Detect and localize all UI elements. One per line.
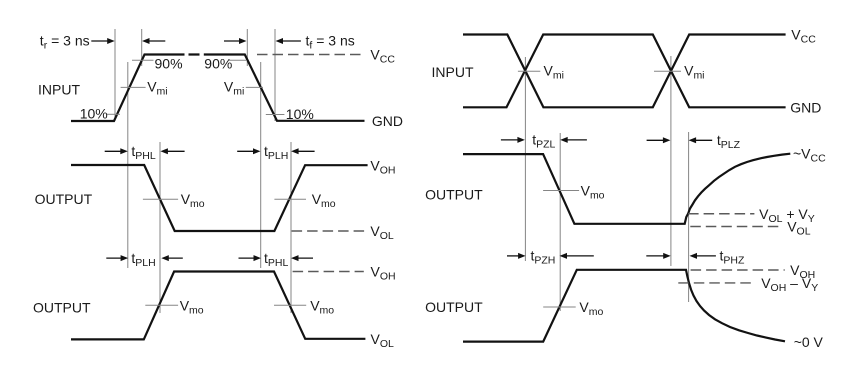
arrow tPHL right <box>105 150 123 152</box>
svg-text:90%: 90% <box>204 56 232 72</box>
bottom output waveform <box>71 272 365 340</box>
arrow tPLZ left <box>694 139 712 141</box>
tick Vmo mid first <box>143 198 178 200</box>
vertical ref line 90% fall <box>246 29 248 66</box>
vertical ref line 10% rise <box>114 29 116 121</box>
vertical ref line output Vmo second <box>290 142 292 313</box>
svg-text:10%: 10% <box>80 106 108 122</box>
svg-text:OUTPUT: OUTPUT <box>35 191 93 207</box>
Vcc dashed line <box>257 54 364 56</box>
right bottom output waveform with decay-to-0 curve <box>463 270 785 342</box>
arrow tPZL left <box>566 139 587 141</box>
arrow tPHZ right <box>646 255 665 257</box>
tick 90% fall <box>229 59 246 61</box>
svg-text:GND: GND <box>372 113 403 129</box>
svg-text:~0 V: ~0 V <box>794 334 824 350</box>
arrow tPZH left <box>565 255 594 257</box>
svg-text:OUTPUT: OUTPUT <box>33 300 91 316</box>
vertical ref line X1 Vmi <box>524 57 526 261</box>
middle output waveform <box>71 165 368 231</box>
tick Vmi X2 <box>654 70 681 72</box>
tick 10% fall <box>266 114 285 116</box>
tick Vmo right mid <box>543 190 579 192</box>
vertical ref line output Vmo first <box>159 142 161 313</box>
arrow tPLH left bottom <box>167 257 183 259</box>
input waveform right line2 <box>463 35 786 108</box>
input waveform left <box>71 55 365 122</box>
tick 90% rise <box>132 59 154 61</box>
input waveform right line1 <box>463 35 786 108</box>
arrow tPHL left <box>166 150 185 152</box>
tick Vmo mid second <box>274 198 306 200</box>
arrow tPZL right <box>501 139 520 141</box>
svg-text:10%: 10% <box>286 106 314 122</box>
Voh dashed right <box>691 269 785 271</box>
arrow tf left <box>282 40 301 42</box>
tick 10% rise <box>107 113 121 115</box>
Voh dashed bottom <box>293 271 364 273</box>
Vol dashed right <box>690 226 782 228</box>
vertical ref line VolVy crossing <box>688 132 690 302</box>
svg-text:90%: 90% <box>155 56 183 72</box>
arrow tPLH left <box>297 150 315 152</box>
tick Vmi X1 <box>518 70 540 72</box>
arrow tPHL right bottom <box>239 257 256 259</box>
vertical ref line input fall Vmi <box>260 62 262 268</box>
vertical ref line output Vmo right <box>559 133 561 311</box>
Vol dashed mid <box>292 230 368 232</box>
arrow tPHL left bottom <box>297 257 313 259</box>
tick Vmi rise <box>121 86 146 88</box>
right middle output waveform with rise-to-Vcc curve <box>463 154 790 224</box>
svg-text:INPUT: INPUT <box>38 81 80 97</box>
arrow tPLH right bottom <box>106 257 122 259</box>
arrow tf right <box>224 40 241 42</box>
arrow tr left <box>148 40 165 42</box>
Vol+Vy dashed <box>688 213 754 215</box>
arrow tPHZ left <box>695 255 716 257</box>
vertical ref line input rise Vmi <box>127 62 129 268</box>
arrow tr right <box>91 40 109 42</box>
vertical ref line 10% fall <box>274 29 276 121</box>
arrow tPLZ right <box>647 139 665 141</box>
vertical ref line 90% rise <box>141 29 143 66</box>
tick Vmo right bottom <box>543 306 576 308</box>
svg-text:OUTPUT: OUTPUT <box>425 187 483 203</box>
tick Vmo bottom second <box>274 304 306 306</box>
svg-text:GND: GND <box>790 99 821 115</box>
tick Vmi fall <box>246 86 263 88</box>
svg-text:OUTPUT: OUTPUT <box>425 299 483 315</box>
Voh-Vy dashed <box>678 282 752 284</box>
tick Vmo bottom first <box>145 304 178 306</box>
arrow tPLH right <box>237 150 255 152</box>
svg-text:INPUT: INPUT <box>432 64 474 80</box>
arrow tPZH right <box>507 255 520 257</box>
vertical ref line X2 Vmi <box>670 56 672 266</box>
